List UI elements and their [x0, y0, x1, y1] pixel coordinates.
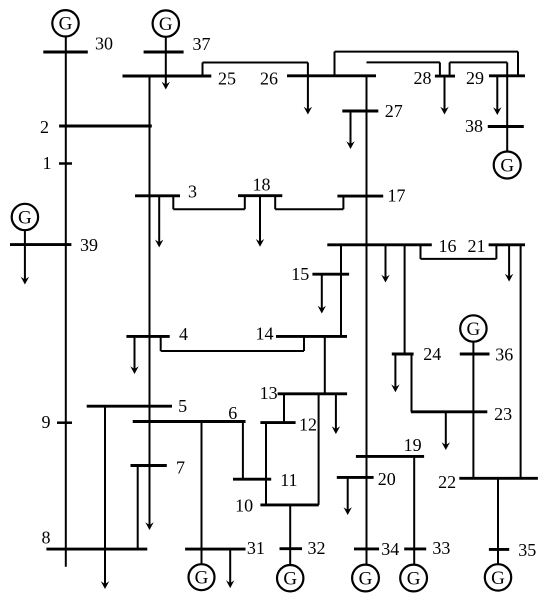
- wire line 17-18 span: [275, 208, 343, 210]
- wire line 6-11: [242, 422, 244, 480]
- svg-text:20: 20: [378, 469, 396, 489]
- wire line 22-35: [497, 478, 499, 564]
- svg-text:G: G: [500, 155, 514, 176]
- bus 1 tick: [59, 162, 72, 165]
- svg-text:26: 26: [260, 68, 278, 88]
- bus 7 bar: [131, 464, 167, 467]
- wire line 14-15 / 15-16: [340, 245, 342, 337]
- svg-text:35: 35: [518, 540, 536, 560]
- load arrow bus 18: [256, 196, 264, 247]
- wire line 28-29 span: [450, 61, 508, 63]
- svg-text:G: G: [18, 207, 32, 228]
- svg-text:37: 37: [193, 34, 211, 54]
- wire line 3-18 step left: [172, 196, 174, 209]
- bus 37 bar: [144, 51, 184, 54]
- bus 39 bar: [10, 243, 71, 246]
- wire line 25-26 down leg / load 26 shaft: [307, 63, 309, 110]
- svg-text:G: G: [467, 319, 481, 340]
- svg-text:17: 17: [388, 186, 406, 206]
- svg-text:12: 12: [299, 415, 317, 435]
- svg-text:9: 9: [42, 412, 51, 432]
- load arrow bus 39: [21, 245, 29, 285]
- load arrow bus 8: [101, 581, 109, 589]
- bus 14 bar: [276, 335, 347, 338]
- bus 22 bar: [459, 477, 538, 480]
- bus 5 bar: [87, 405, 172, 408]
- bus 25 bar: [123, 75, 212, 78]
- wire line 7-8: [137, 466, 139, 550]
- bus 10 bar: [260, 503, 318, 506]
- svg-text:G: G: [491, 568, 505, 589]
- svg-text:3: 3: [188, 182, 197, 202]
- svg-text:11: 11: [280, 470, 297, 490]
- load arrow bus 23: [442, 412, 450, 450]
- load arrow bus 3: [155, 196, 163, 248]
- wire line 36-23 / 22-23: [472, 342, 474, 479]
- bus 36 bar: [460, 353, 490, 356]
- load arrow bus 21: [505, 245, 513, 282]
- svg-text:33: 33: [432, 538, 450, 558]
- wire line 28-29 drop to 38: [506, 62, 508, 151]
- generator G30: [52, 10, 78, 36]
- svg-text:G: G: [59, 14, 73, 35]
- wire line 11-12 / 10-11: [265, 423, 267, 505]
- wire line 6-31: [201, 422, 203, 565]
- svg-text:31: 31: [247, 538, 265, 558]
- svg-text:8: 8: [42, 528, 51, 548]
- wire line 26-28 down leg: [439, 62, 441, 76]
- bus 17 bar: [337, 195, 383, 198]
- bus 30 bar: [43, 51, 88, 54]
- generator G32: [277, 565, 303, 591]
- bus 18 bar: [238, 194, 282, 197]
- bus 28 bar: [435, 75, 455, 78]
- svg-text:16: 16: [439, 236, 457, 256]
- load arrow bus 15: [318, 274, 326, 313]
- wire line 10-32: [289, 505, 291, 565]
- load arrow bus 16: [381, 245, 389, 283]
- svg-text:6: 6: [228, 403, 237, 423]
- bus 32 bar: [280, 547, 303, 550]
- bus 21 bar: [489, 243, 525, 246]
- svg-text:10: 10: [235, 496, 253, 516]
- generator G39: [12, 204, 38, 230]
- bus 35 bar: [489, 548, 509, 551]
- wire line 21-22: [520, 245, 522, 478]
- generator G33: [400, 565, 427, 592]
- generator G34: [352, 565, 379, 592]
- svg-text:5: 5: [178, 396, 187, 416]
- svg-text:18: 18: [253, 175, 271, 195]
- load arrow bus 13: [332, 394, 340, 434]
- wire line 13-14: [324, 336, 326, 393]
- bus 4 bar: [126, 335, 169, 338]
- bus 27 bar: [342, 110, 378, 113]
- wire line 2-25/2-3/3-4/4-5/5-6/6-7 trunk: [149, 76, 151, 525]
- wire line 16-21 span: [421, 258, 497, 260]
- wire line 12-13: [283, 394, 285, 423]
- load arrow bus 27: [346, 111, 354, 149]
- svg-text:G: G: [159, 14, 173, 35]
- svg-text:19: 19: [404, 435, 422, 455]
- bus 19 bar: [356, 455, 424, 458]
- wire gen stem G37 / load 25 shaft: [165, 37, 167, 85]
- svg-text:30: 30: [95, 34, 113, 54]
- wire line 5-8: [104, 406, 106, 584]
- load arrow bus 28: [440, 76, 448, 114]
- svg-text:1: 1: [43, 153, 52, 173]
- wire line 25-26 span: [203, 62, 308, 64]
- bus 29 bar: [489, 74, 525, 77]
- load arrow bus 31: [226, 549, 234, 588]
- svg-text:36: 36: [495, 345, 513, 365]
- svg-text:24: 24: [423, 344, 441, 364]
- svg-text:G: G: [359, 568, 373, 589]
- wire line 26-29 span: [335, 51, 519, 53]
- bus 12 bar: [260, 421, 295, 424]
- load arrow bus 29: [493, 76, 501, 115]
- generator G38: [494, 152, 521, 179]
- wire line 4-14 step right: [303, 336, 305, 351]
- generator G31: [189, 564, 215, 590]
- bus 33 bar: [404, 547, 426, 550]
- wire line 17-18 step right: [342, 196, 344, 209]
- wire line 4-14 step left: [160, 336, 162, 351]
- svg-text:39: 39: [80, 235, 98, 255]
- svg-text:G: G: [283, 569, 297, 590]
- bus 24 bar: [392, 353, 414, 356]
- bus 20 bar: [337, 476, 374, 479]
- bus 9 tick: [57, 421, 72, 424]
- wire line 3-18 span: [173, 208, 245, 210]
- load arrow bus 7: [145, 522, 153, 530]
- svg-text:G: G: [407, 568, 421, 589]
- bus 16 bar: [327, 243, 432, 246]
- svg-text:22: 22: [438, 472, 456, 492]
- wire line 26-27/17-27/16-17/16-19/19-20/20-34 trunk: [366, 76, 368, 565]
- bus 23 bar: [411, 410, 487, 413]
- svg-text:28: 28: [414, 68, 432, 88]
- bus 8 bar: [46, 548, 147, 551]
- wire line 28-29 up leg: [449, 62, 451, 76]
- wire gen stem G39: [24, 230, 26, 244]
- load arrow bus 20: [344, 477, 352, 515]
- svg-text:27: 27: [385, 101, 403, 121]
- wire line 26-28 span: [367, 61, 440, 63]
- generator G37: [153, 10, 179, 36]
- bus 13 bar: [278, 392, 348, 395]
- svg-text:4: 4: [179, 324, 188, 344]
- bus 11 bar: [233, 478, 271, 481]
- wire line 19-33: [413, 456, 415, 564]
- svg-text:34: 34: [381, 539, 399, 559]
- svg-text:G: G: [195, 568, 209, 589]
- load arrow bus 4: [130, 336, 138, 374]
- bus 34 bar: [354, 547, 379, 550]
- load arrow bus 24: [391, 354, 399, 392]
- svg-text:25: 25: [218, 68, 236, 88]
- svg-text:14: 14: [256, 324, 274, 344]
- svg-text:29: 29: [466, 68, 484, 88]
- bus 31 bar: [185, 548, 245, 551]
- wire line 4-14 span: [161, 350, 304, 352]
- bus 2 bar: [59, 125, 152, 128]
- wire line 26-29 right leg: [517, 52, 519, 76]
- bus 15 bar: [312, 273, 349, 276]
- wire line 3-18 step right: [244, 196, 246, 210]
- wire line 1-2-39 / 8-9 (bus1,9 feeder): [65, 37, 67, 567]
- wire line 23-24: [411, 354, 413, 412]
- svg-text:15: 15: [291, 264, 309, 284]
- svg-text:21: 21: [468, 236, 486, 256]
- wire line 16-21 step left: [420, 245, 422, 259]
- bus 3 bar: [135, 194, 180, 197]
- svg-text:13: 13: [260, 383, 278, 403]
- wire line 16-24: [404, 245, 406, 354]
- svg-text:23: 23: [494, 404, 512, 424]
- wire line 25-26 up leg: [202, 63, 204, 77]
- wire line 17-18 step left: [274, 196, 276, 210]
- wire line 16-21 step right: [495, 245, 497, 259]
- bus 26 bar: [287, 74, 376, 77]
- load arrow bus 25: [162, 82, 170, 90]
- bus 38 bar: [488, 125, 524, 128]
- wire line 26-29 left leg: [334, 52, 336, 76]
- wire line 10-13: [318, 394, 320, 505]
- svg-text:7: 7: [176, 458, 185, 478]
- generator G35: [485, 564, 511, 590]
- load arrow bus 26: [304, 107, 312, 115]
- svg-text:38: 38: [465, 116, 483, 136]
- generator G36: [460, 315, 486, 341]
- svg-text:32: 32: [308, 538, 326, 558]
- svg-text:2: 2: [40, 117, 49, 137]
- bus 6 bar: [133, 420, 246, 423]
